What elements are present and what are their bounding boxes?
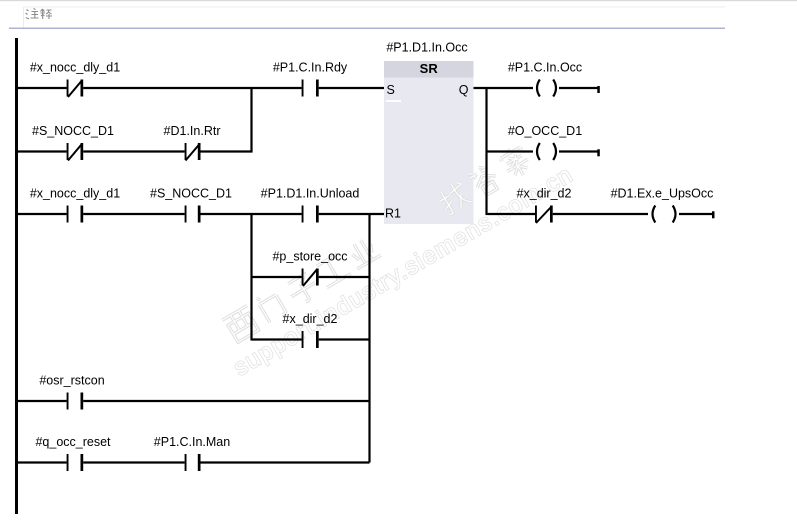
wire row3: contact3 to SR R1 input xyxy=(319,213,384,215)
svg-text:#q_occ_reset: #q_occ_reset xyxy=(35,435,111,449)
svg-text:#S_NOCC_D1: #S_NOCC_D1 xyxy=(150,187,232,201)
contact #x_nocc_dly_d1 (NO) row3 xyxy=(30,187,120,223)
branch vertical left (row3 down to row5) xyxy=(250,213,252,341)
contact #D1.In.Rtr (NC) row2 xyxy=(164,124,221,161)
contact #q_occ_reset (NO) row7 xyxy=(35,435,111,471)
wire row3 coil to end xyxy=(679,213,713,215)
svg-text:#O_OCC_D1: #O_OCC_D1 xyxy=(508,124,582,138)
svg-text:#x_nocc_dly_d1: #x_nocc_dly_d1 xyxy=(30,61,120,75)
wire row3: contact1 to contact2 xyxy=(83,213,184,215)
svg-text:#D1.Ex.e_UpsOcc: #D1.Ex.e_UpsOcc xyxy=(611,187,714,201)
coil #P1.C.In.Occ row1 xyxy=(537,80,556,97)
svg-text:#x_dir_d2: #x_dir_d2 xyxy=(283,312,338,326)
wire row3 NC contact to coil xyxy=(553,213,648,215)
contact #x_dir_d2 (NC) row3 right xyxy=(517,187,572,224)
white dash under S xyxy=(386,100,401,102)
svg-text:#osr_rstcon: #osr_rstcon xyxy=(39,374,104,388)
contact #P1.C.In.Rdy (NO) row1 xyxy=(273,61,348,97)
contact #S_NOCC_D1 (NC) row2 xyxy=(32,124,114,161)
wire row7: contact2 to branch vertical xyxy=(201,461,370,463)
释 xyxy=(41,9,46,19)
top border xyxy=(0,0,797,1)
svg-text:Q: Q xyxy=(459,83,469,97)
svg-text:R1: R1 xyxy=(385,207,401,221)
svg-text:#D1.In.Rtr: #D1.In.Rtr xyxy=(164,124,221,138)
svg-text:SR: SR xyxy=(420,61,439,76)
svg-text:S: S xyxy=(387,83,395,97)
wire row2: contact2 to junction xyxy=(201,150,253,152)
contact #S_NOCC_D1 (NO) row3 xyxy=(150,187,232,223)
svg-text:#P1.D1.In.Occ: #P1.D1.In.Occ xyxy=(386,41,467,55)
wire row7: rail to contact1 xyxy=(18,461,67,463)
svg-text:#P1.C.In.Rdy: #P1.C.In.Rdy xyxy=(273,61,348,75)
wire row3: rail to contact1 xyxy=(18,213,67,215)
wire row5 left xyxy=(252,338,302,340)
watermark line 1: 西门子工业 找答案 xyxy=(221,143,534,344)
wire row2: contact1 to contact2 xyxy=(83,150,184,152)
svg-text:#p_store_occ: #p_store_occ xyxy=(272,250,347,264)
wire row4 left xyxy=(252,276,302,278)
contact #P1.D1.In.Unload (NO) row3 xyxy=(261,187,360,223)
svg-text:#x_dir_d2: #x_dir_d2 xyxy=(517,187,572,201)
注 xyxy=(26,10,30,20)
svg-text:#P1.D1.In.Unload: #P1.D1.In.Unload xyxy=(261,187,360,201)
branch vertical right (row3 down to row7) xyxy=(368,213,370,463)
contact #P1.C.In.Man (NO) row7 xyxy=(154,435,230,471)
svg-text:#P1.C.In.Man: #P1.C.In.Man xyxy=(154,435,230,449)
comment text 注释 (hand-drawn) xyxy=(26,9,53,20)
wire Q output to junction xyxy=(474,87,534,89)
contact #x_dir_d2 (NO) row5 xyxy=(283,312,338,348)
contact #x_nocc_dly_d1 (NC) row1 xyxy=(30,61,120,98)
wire row2: rail to contact1 xyxy=(18,150,67,152)
wire row3 output branch to NC contact xyxy=(487,213,536,215)
svg-text:#P1.C.In.Occ: #P1.C.In.Occ xyxy=(508,61,582,75)
wire row2 coil to end xyxy=(559,150,598,152)
left power rail xyxy=(15,38,18,514)
output junction vertical xyxy=(485,87,487,215)
wire row7: contact1 to contact2 xyxy=(83,461,184,463)
wire end tick row1 xyxy=(597,86,600,93)
wire row6: contact to branch vertical xyxy=(83,400,369,402)
contact #osr_rstcon (NO) row6 xyxy=(39,374,104,410)
wire end tick row3 xyxy=(712,211,715,218)
wire row4 right xyxy=(319,276,370,278)
SR box U1 fill (under watermark) xyxy=(384,61,474,224)
wire row2 output branch to coil xyxy=(487,150,534,152)
comment input box xyxy=(24,7,726,28)
wire row1 coil to end xyxy=(559,87,598,89)
wire row3: contact2 to contact3 xyxy=(201,213,302,215)
wire row5 right xyxy=(319,338,370,340)
svg-text:#S_NOCC_D1: #S_NOCC_D1 xyxy=(32,124,114,138)
coil #O_OCC_D1 row2 xyxy=(537,143,556,160)
coil #D1.Ex.e_UpsOcc row3 xyxy=(653,206,676,223)
lavender separator xyxy=(9,28,725,30)
contact #p_store_occ (NC) row4 xyxy=(272,250,347,287)
svg-text:#x_nocc_dly_d1: #x_nocc_dly_d1 xyxy=(30,187,120,201)
wire end tick row2 xyxy=(597,149,600,156)
wire row6: rail to contact xyxy=(18,400,67,402)
wire row1: Rdy to SR S input xyxy=(319,87,384,89)
wire row1: rail to contact1 xyxy=(18,87,67,89)
wire row1: contact1 to contact Rdy xyxy=(83,87,301,89)
junction vertical row2-row1 xyxy=(250,87,252,153)
